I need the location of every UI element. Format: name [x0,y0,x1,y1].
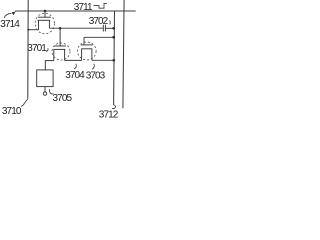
wire gate line of 3703 to power line [84,36,114,38]
arrowhead of 3714 leader [12,12,16,16]
wire current supply line 3712 (vertical) [113,11,116,105]
wire right vertical line 3711 [123,0,124,108]
wire signal line 3710 (left vertical) [27,0,29,98]
leader of label 3701 [46,48,48,51]
wire cathode stem of 3705 [44,87,46,92]
node wire-power junction [112,36,115,39]
node gate junction of transistor 3704 [59,27,62,30]
wire node A from 3701 drain to capacitor [49,27,103,29]
node 3703-power junction [113,59,116,62]
svg-text:3711: 3711 [74,2,93,13]
svg-text:3704: 3704 [65,70,85,81]
wire gate stem of 3704 [59,28,61,46]
leader of label 3702 [109,20,112,24]
transistor Q 3704 [54,46,66,61]
terminal circle below 3705 [43,92,46,95]
wire gate line 3714 (top horizontal) [15,10,136,12]
svg-text:3702: 3702 [89,16,109,27]
wire 3704 drain to 3703 source [65,59,82,61]
transistor Q 3701 [38,11,51,30]
leader of label 3711 [94,3,108,8]
EL element box 3705 [37,70,53,87]
leader of label 3704 [74,64,76,69]
leader of label 3710 [21,98,28,106]
wire 3701 source to signal line [28,29,39,31]
svg-text:3710: 3710 [2,106,22,117]
leader of label 3712 [112,105,116,109]
transistor Q 3703 [81,45,93,60]
leader of label 3705 [49,89,53,94]
dashed ellipse around 3701 [35,13,54,34]
wire 3703 drain to power line [92,59,114,61]
svg-text:3701: 3701 [27,43,47,54]
capacitor C 3702 [103,25,105,32]
dashed ellipse around 3704 [52,43,70,60]
node junction on signal line [27,29,29,31]
wire capacitor to power line [105,27,114,29]
node capacitor-power junction [112,27,115,30]
svg-text:3712: 3712 [99,110,119,121]
node gate junction of transistor 3701 [44,10,47,13]
leader of label 3714 [4,13,11,17]
leader of label 3703 [92,64,94,70]
wire gate stem of 3703 [83,37,85,45]
svg-text:3714: 3714 [0,19,20,30]
svg-text:3705: 3705 [53,93,73,104]
svg-text:3703: 3703 [86,70,106,81]
wire 3704 source to EL element 3705 [45,61,54,70]
dashed ellipse around 3703 [78,42,97,60]
